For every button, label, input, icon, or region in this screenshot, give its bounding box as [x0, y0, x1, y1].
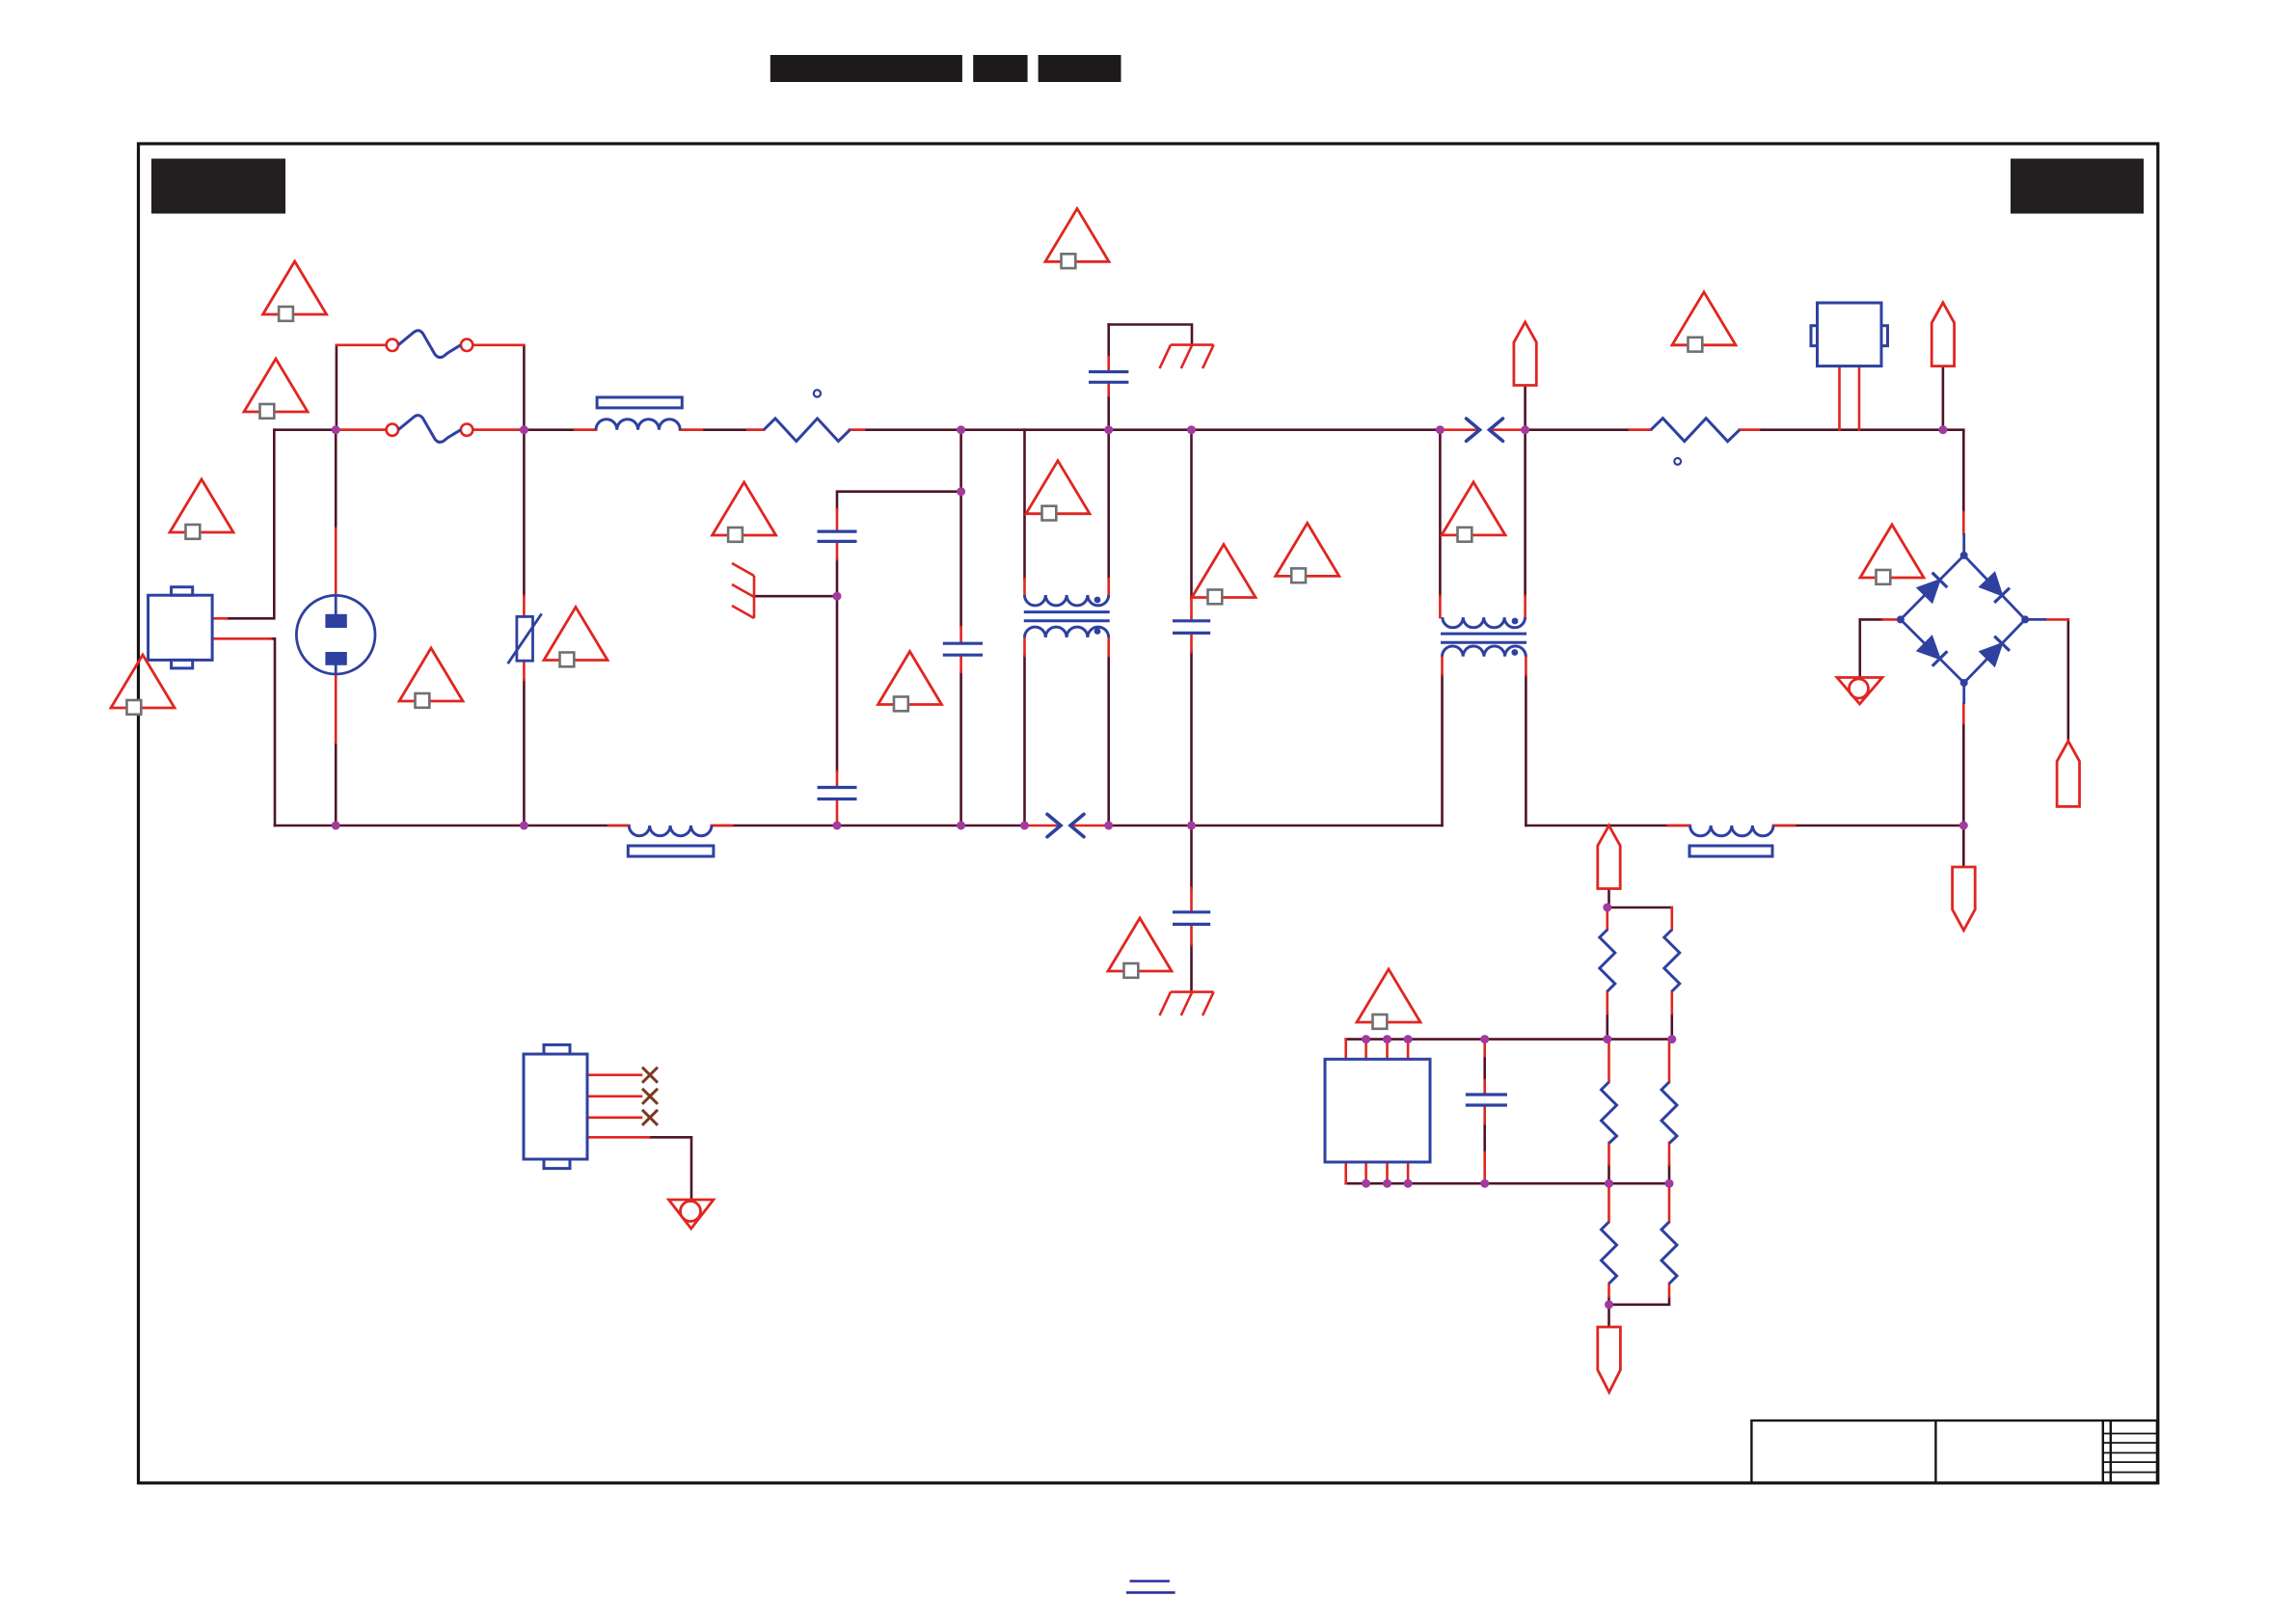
wire bottom resistor bracket	[1609, 1297, 1670, 1305]
transformer T2 core	[1441, 634, 1526, 642]
wire top rail segment 3	[680, 428, 764, 431]
capacitor C4 plates	[1173, 621, 1210, 634]
no-connect X mark pin1	[642, 1068, 658, 1083]
wire varistor red stubs	[523, 596, 526, 680]
resistor R1 (thermistor)	[764, 419, 850, 442]
resistor R1 marker circle	[814, 390, 821, 396]
schematic frame border	[139, 144, 2158, 1483]
wire T2 secondary right leg	[1525, 675, 1527, 826]
chassis ground top	[1160, 345, 1214, 368]
resistor R5 (mid col1)	[1602, 1082, 1617, 1144]
varistor RV1	[508, 613, 542, 663]
warning triangle W12	[1276, 523, 1339, 582]
capacitor C3 plates	[943, 643, 983, 655]
warning triangle W9	[1026, 461, 1090, 521]
earth ground G2 (connector)	[669, 1200, 714, 1229]
wire varistor branch lower	[523, 680, 526, 826]
wire bottom rail segment 2	[712, 825, 1025, 827]
wire R column2 to bus	[1671, 1014, 1674, 1040]
net flag A (upper, x=1582)	[1514, 322, 1536, 386]
warning triangle W14	[1672, 292, 1736, 352]
resistor R7 (bot col1)	[1602, 1222, 1617, 1284]
IC U1	[1325, 1059, 1430, 1162]
resistor R8 (bot col2)	[1661, 1222, 1677, 1284]
wire Y-cap upper stub	[1107, 325, 1110, 358]
wire IC pins top red	[1346, 1040, 1408, 1060]
wire bottom resistor red stubs	[1609, 1183, 1670, 1297]
net flag D (on bottom rail)	[1598, 826, 1620, 889]
net flag G (output right)	[2057, 741, 2079, 806]
warning triangle W10	[1045, 208, 1109, 268]
wire bottom choke right red stubs	[1668, 825, 1795, 827]
wire resistor net red stubs	[1607, 907, 1672, 1014]
wire fuse row upper red	[337, 343, 525, 346]
no-connect X mark pin2	[642, 1089, 658, 1104]
wire top rail segment 4	[850, 428, 1440, 431]
wire R1 red stubs	[747, 428, 864, 431]
wire T1 primary right leg	[1107, 430, 1110, 579]
capacitor CY1 plates	[1089, 372, 1128, 383]
wire fuse bracket upper left vertical	[336, 345, 338, 430]
wire bottom rail segment 1	[275, 825, 629, 827]
wire R column1 to bus	[1607, 1014, 1609, 1040]
resistor R6 (mid col2)	[1661, 1082, 1677, 1144]
wire X-cap mid segment	[836, 559, 839, 771]
warning triangle W17	[1357, 969, 1420, 1029]
wire X-cap jog	[837, 492, 961, 509]
wire T1 leg red stubs	[1025, 579, 1109, 656]
fuse F1 (upper)	[387, 339, 473, 351]
wire mid vertical C branch	[959, 430, 962, 627]
wire bottom Y-cap upper	[1190, 826, 1193, 888]
wire Y-cap red stubs	[1107, 357, 1110, 395]
wire IC top bus	[1346, 1038, 1672, 1041]
wire bottom rail segment 4	[1526, 825, 1689, 827]
wire mid resistor col1 lower	[1607, 1165, 1610, 1183]
wire CN3 pins red	[587, 1075, 649, 1138]
wire spark gap bottom red	[1025, 825, 1109, 827]
warning triangle W3	[170, 479, 233, 539]
wire connector CN3 pin4 to earth	[649, 1137, 691, 1200]
wire top rail segment 1	[275, 428, 387, 431]
diode D1 (top-left edge)	[1918, 573, 1948, 603]
wire R2 red stubs	[1630, 428, 1759, 431]
warning triangle W5	[111, 655, 175, 715]
warning triangle W7	[544, 608, 608, 667]
wire bridge bottom drop	[1962, 723, 1965, 867]
wire T2 secondary left leg	[1441, 675, 1444, 826]
spark gap top	[1467, 419, 1503, 441]
warning triangle W11	[1192, 545, 1256, 605]
inductor L1 (common-mode choke top)	[596, 397, 682, 430]
wire Y-cap lower stub	[1107, 395, 1110, 430]
capacitor CX1 plates	[818, 531, 857, 541]
wire top rail segment 5	[1526, 428, 1651, 431]
wire T1 primary left leg	[1023, 430, 1026, 579]
link mark bottom center	[1126, 1582, 1175, 1593]
wire bottom Y-cap red stubs	[1190, 888, 1193, 945]
output connector CN2	[1811, 303, 1888, 366]
earth ground G1 (bridge)	[1837, 678, 1882, 705]
bridge vertex dots	[1897, 552, 2029, 687]
wire AC line upper pin to rail	[227, 430, 274, 619]
redaction box header 2	[973, 55, 1027, 82]
title block	[1751, 1421, 2156, 1483]
wire IC pins bottom red	[1346, 1162, 1408, 1183]
transformer T2 primary	[1443, 617, 1526, 628]
diode D2 (top-right edge)	[1980, 573, 2010, 603]
transformer T2 phase dots	[1512, 618, 1519, 625]
wire T2 primary left leg	[1439, 430, 1442, 596]
wire mid resistor col2 lower	[1668, 1165, 1671, 1183]
inductor L3 (bottom-right choke)	[1689, 826, 1773, 856]
warning triangle W15	[1860, 525, 1924, 584]
fuse F2 (lower)	[387, 424, 473, 436]
wire resistor top bracket	[1607, 907, 1672, 909]
redaction box header 1	[770, 55, 962, 82]
wire AC line lower pin to bottom rail	[271, 638, 275, 826]
wire bottom Y-cap lower	[1190, 945, 1193, 992]
AC inlet connector CN1	[149, 587, 213, 668]
spark gap bottom	[1047, 814, 1084, 836]
no-connect X mark pin3	[642, 1110, 658, 1125]
transformer T1 primary	[1025, 595, 1109, 606]
wire flag E stub	[1607, 1305, 1610, 1327]
wire CN2 pins red	[1840, 366, 1860, 430]
connector CN3	[524, 1044, 587, 1168]
wire mid cap red stubs	[1190, 598, 1193, 652]
capacitor C5 plates (IC)	[1466, 1095, 1507, 1105]
wire mid vertical C branch lower	[959, 672, 962, 826]
fuse F2 element	[398, 416, 461, 443]
wire Y-cap bracket top	[1109, 325, 1192, 345]
wire plug top drop	[335, 430, 338, 528]
wire bridge right to flag	[2067, 619, 2070, 741]
wire cap IC lower	[1483, 1123, 1486, 1152]
wire bridge red stubs	[1882, 512, 2068, 723]
wire C mid red stubs	[959, 627, 962, 672]
net flag B (upper, x=2015)	[1931, 303, 1954, 366]
wire fuse row lower red	[336, 428, 524, 431]
redaction box top-right	[2011, 159, 2144, 214]
plug symbol P1	[296, 595, 375, 674]
wire top rail segment 6	[1740, 430, 1963, 512]
wire bottom choke left red stubs	[608, 825, 732, 827]
net flag E (down, resistor chain)	[1598, 1327, 1621, 1393]
redaction box top-left	[151, 159, 285, 214]
chassis ground bottom	[1160, 992, 1214, 1015]
wire mid cap branch lower	[1190, 652, 1193, 826]
fuse F1 element	[398, 331, 461, 358]
wire T2 leg red stubs	[1440, 596, 1526, 675]
wire choke L1 red stubs	[575, 428, 702, 431]
wire IC bottom bus	[1346, 1182, 1672, 1185]
wire spark gap top red	[1440, 428, 1525, 431]
wire bridge left to earth	[1860, 619, 1882, 677]
wire plug red stubs	[335, 528, 338, 743]
wire AC pin stubs red	[212, 618, 271, 638]
warning triangle W6	[399, 648, 463, 708]
warning triangle W8	[878, 652, 942, 712]
wire bottom rail segment 3	[1109, 825, 1443, 827]
wire bottom rail segment 5	[1773, 825, 1963, 827]
transformer T1 core	[1024, 612, 1110, 621]
resistor R4 (top col2)	[1664, 930, 1680, 991]
wire top rail segment 2	[473, 428, 596, 431]
capacitor CX2 plates	[818, 788, 857, 799]
wire cap IC upper	[1483, 1056, 1486, 1080]
bridge lead stubs	[1964, 533, 2046, 704]
diode D4 (bottom-right edge)	[1980, 636, 2010, 666]
warning triangle W1	[263, 261, 327, 321]
transformer T1 phase dots	[1094, 597, 1101, 604]
wire mid cap branch upper	[1190, 430, 1193, 598]
wire flag D stub	[1607, 889, 1610, 908]
redaction box header 3	[1039, 55, 1121, 82]
wire mid resistor red stubs	[1609, 1040, 1670, 1165]
net flag F (down, below bridge)	[1953, 867, 1976, 931]
warning triangle W4	[713, 482, 776, 542]
wire T2 primary right leg	[1524, 386, 1526, 597]
warning triangle W2	[244, 359, 308, 419]
resistor R2 (thermistor)	[1651, 419, 1740, 442]
transformer T2 secondary	[1443, 646, 1526, 657]
resistor R2 marker circle	[1674, 458, 1681, 465]
wire fuse bracket upper right vertical	[523, 345, 526, 430]
wire T1 secondary left leg	[1023, 656, 1026, 826]
wire cap IC red stubs	[1483, 1040, 1486, 1184]
wire chassis arm	[754, 595, 837, 598]
transformer T1 secondary	[1025, 627, 1109, 637]
warning triangle W16	[1108, 918, 1172, 978]
inductor L2 (bottom-left choke)	[628, 826, 714, 856]
wire output flag B stub	[1942, 366, 1945, 430]
chassis ground left	[732, 563, 754, 618]
bridge rectifier BR1	[1901, 555, 2025, 683]
diode D3 (bottom-left edge)	[1918, 636, 1948, 666]
capacitor CY2 plates	[1173, 912, 1210, 925]
wire T1 secondary right leg	[1107, 656, 1110, 826]
warning triangle W13	[1442, 482, 1505, 542]
resistor R3 (top col1)	[1600, 930, 1615, 991]
wire varistor branch upper	[523, 430, 526, 596]
wire X-cap red stubs	[836, 509, 839, 826]
wire plug bottom drop	[335, 743, 338, 826]
